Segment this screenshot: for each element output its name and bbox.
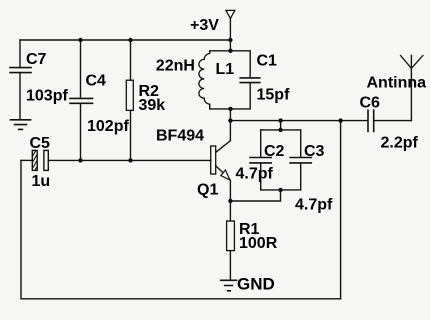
svg-text:4.7pf: 4.7pf (295, 197, 333, 214)
svg-text:103pf: 103pf (26, 88, 68, 105)
wire top rail (20, 39, 230, 41)
capacitor C2 (250, 121, 301, 190)
node tank top (228, 49, 232, 53)
svg-text:102pf: 102pf (87, 118, 129, 135)
wire emitter row (230, 190, 280, 201)
svg-text:4.7pf: 4.7pf (236, 166, 274, 183)
svg-text:C3: C3 (304, 143, 325, 160)
+3V supply terminal (226, 10, 235, 40)
capacitor C6 (368, 110, 411, 131)
wire right frame (340, 121, 342, 299)
svg-text:1u: 1u (32, 173, 51, 190)
capacitor C7 (10, 40, 31, 119)
wire collector row (230, 120, 367, 122)
svg-text:C7: C7 (26, 51, 47, 68)
node top/C4 (78, 38, 82, 42)
node C2C3 top drop (278, 118, 282, 122)
transistor Q1 (211, 141, 231, 201)
ground (R1 / GND) (221, 280, 237, 291)
node collector (228, 118, 232, 122)
svg-text:+3V: +3V (190, 17, 219, 34)
inductor L1 (199, 51, 231, 109)
capacitor C1 (231, 51, 260, 109)
capacitor C4 (70, 40, 93, 160)
resistor R2 (126, 40, 133, 160)
node C2C3 bottom (278, 188, 282, 192)
wire base (48, 159, 210, 161)
svg-text:39k: 39k (139, 97, 166, 114)
node base/R2 (128, 158, 132, 162)
node top/+3V (228, 38, 232, 42)
svg-text:C5: C5 (30, 135, 51, 152)
svg-text:15pf: 15pf (257, 87, 291, 104)
node feedback frame (338, 118, 342, 122)
node base/C4 (78, 158, 82, 162)
svg-text:C2: C2 (264, 143, 285, 160)
svg-text:2.2pf: 2.2pf (381, 135, 419, 152)
capacitor C3 (261, 130, 312, 190)
node C2C3 rail (278, 128, 282, 132)
wire left frame (21, 160, 341, 298)
svg-text:Q1: Q1 (197, 182, 218, 199)
resistor R1 (227, 201, 235, 280)
svg-text:C4: C4 (86, 73, 107, 90)
capacitor C5 (21, 144, 48, 184)
node top/R2 (128, 38, 132, 42)
svg-text:BF494: BF494 (156, 128, 204, 145)
node emitter (228, 199, 232, 203)
node tank bottom (228, 107, 232, 111)
svg-text:GND: GND (237, 275, 275, 294)
svg-text:Antinna: Antinna (367, 75, 427, 92)
wire +3V to tank (229, 40, 231, 51)
svg-text:L1: L1 (216, 61, 235, 78)
ground (C7) (10, 120, 30, 130)
node dots (78, 38, 343, 203)
antenna (401, 55, 423, 120)
wire tank to collector node (229, 109, 231, 141)
svg-text:22nH: 22nH (156, 58, 195, 75)
svg-text:C1: C1 (257, 53, 278, 70)
svg-text:C6: C6 (360, 95, 381, 112)
svg-text:100R: 100R (239, 235, 278, 252)
